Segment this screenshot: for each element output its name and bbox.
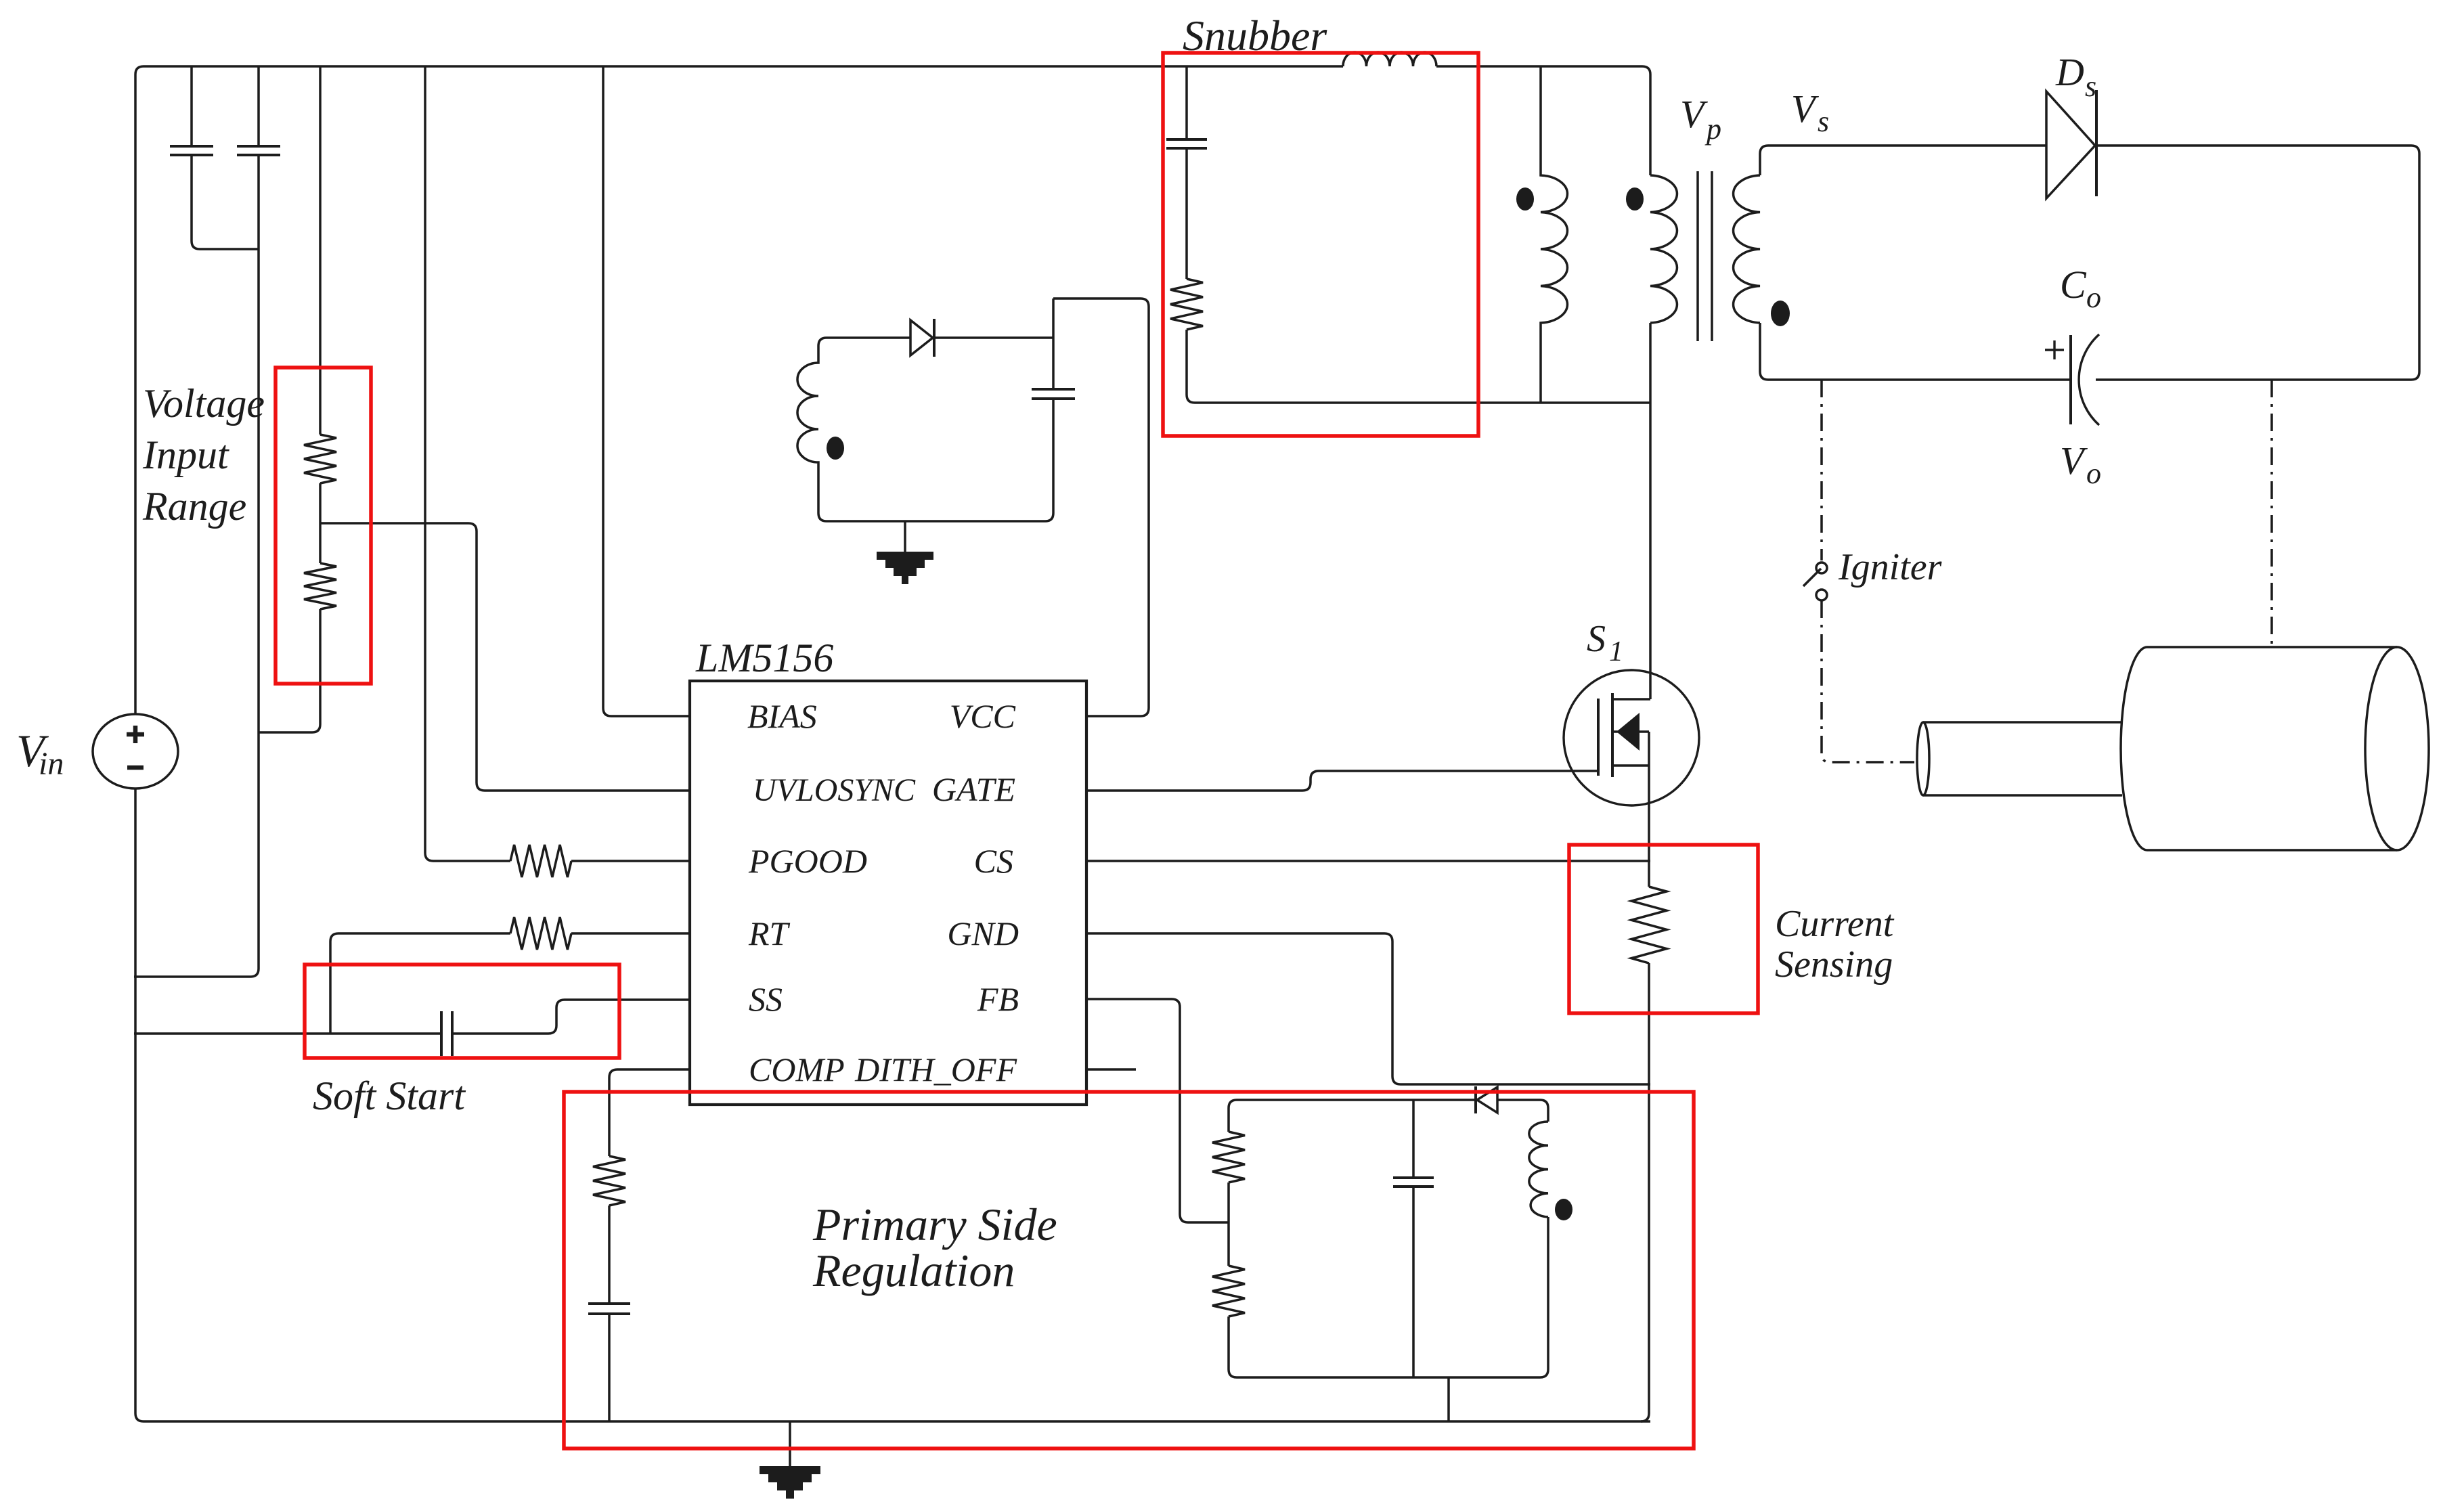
capacitor C-ss plates	[441, 1011, 452, 1056]
wire output bottom rail right	[2096, 378, 2411, 381]
lamp bulb bottom	[2147, 849, 2397, 851]
transistor S1 channel bar	[1611, 693, 1614, 777]
svg-text:Voltage: Voltage	[143, 381, 265, 426]
wire UVLOSYNC from divider tap	[320, 523, 690, 791]
wire snubber cap to resistor	[1185, 148, 1188, 279]
wire SS cap to IC	[452, 1000, 690, 1034]
wire aux diode to node	[934, 336, 1053, 339]
wire igniter dash-dot lower	[1822, 600, 1914, 762]
capacitor C-psr plates	[1393, 1178, 1434, 1187]
wire snubber tap	[1185, 66, 1188, 139]
svg-text:UVLOSYNC: UVLOSYNC	[753, 772, 916, 808]
svg-text:p: p	[1704, 112, 1721, 146]
svg-text:o: o	[2086, 457, 2101, 490]
svg-text:Regulation: Regulation	[812, 1245, 1015, 1296]
capacitor C-in2 plates	[237, 146, 280, 155]
resistor R-pgood	[510, 845, 571, 877]
transistor S1 source leg	[1612, 764, 1649, 767]
svg-text:GATE: GATE	[932, 770, 1015, 808]
inductor L-aux winding	[797, 338, 827, 521]
diode D-psr triangle	[1477, 1087, 1497, 1113]
ground symbol aux	[877, 552, 933, 584]
label Vin minus	[127, 766, 144, 770]
svg-text:Input: Input	[142, 433, 229, 477]
capacitor C-in2 top lead	[257, 66, 260, 146]
dot secondary winding polarity	[1771, 301, 1790, 326]
transistor S1 gate bar	[1597, 699, 1600, 776]
lamp electrode tube end cap	[1917, 722, 1929, 795]
capacitor Co straight plate	[2069, 335, 2072, 424]
dot magnetizing winding polarity	[1516, 187, 1534, 211]
box current sensing	[1569, 845, 1758, 1013]
svg-text:Igniter: Igniter	[1838, 546, 1942, 588]
transistor S1 middle leg	[1612, 730, 1649, 733]
svg-text:1: 1	[1609, 636, 1623, 667]
resistor R-snubber	[1170, 279, 1203, 330]
svg-text:CS: CS	[974, 842, 1013, 880]
svg-text:V: V	[2060, 439, 2088, 483]
svg-text:D: D	[2055, 50, 2084, 94]
box soft start	[305, 965, 619, 1058]
capacitor C-aux plates	[1032, 389, 1075, 399]
wire primary to drain	[1649, 323, 1652, 699]
svg-text:FB: FB	[977, 980, 1019, 1018]
lamp bulb right end ellipse	[2365, 647, 2429, 850]
wire RT corner vertical	[330, 933, 510, 1034]
svg-text:Primary Side: Primary Side	[812, 1199, 1057, 1250]
diode D-psr cathode bar	[1474, 1086, 1477, 1113]
resistor R-comp	[593, 1156, 625, 1206]
wire output bottom rail left	[1760, 323, 2071, 380]
dot primary winding polarity	[1626, 187, 1644, 211]
wire left rail upper	[135, 66, 144, 714]
transformer primary winding	[1650, 175, 1677, 323]
wire PSR network left vertical top	[1229, 1100, 1237, 1132]
wire COMP cap to ground rail	[608, 1314, 611, 1421]
lamp bulb top	[2147, 646, 2397, 648]
IC U1 LM5156 box	[690, 681, 1086, 1105]
switch igniter contact top	[1816, 562, 1827, 573]
resistor R-fb-top	[1212, 1132, 1245, 1182]
svg-text:s: s	[1818, 105, 1829, 138]
wire aux winding to diode	[827, 336, 910, 339]
wire secondary top Vs rail	[1760, 146, 2046, 175]
capacitor Co curved plate	[2079, 334, 2099, 425]
source Vin	[93, 714, 178, 789]
transformer secondary winding	[1734, 175, 1760, 323]
wire sense resistor to ground rail	[1641, 963, 1649, 1421]
resistor R-uvlo-top	[304, 435, 336, 483]
REDBOX-SECTION	[276, 53, 1758, 1448]
wire PSR divider middle	[1227, 1182, 1230, 1266]
wire CS to sense node	[1086, 860, 1650, 862]
wire aux cap to bottom rail	[827, 399, 1053, 521]
switch igniter contact bottom	[1816, 590, 1827, 600]
label Vin plus	[127, 726, 144, 743]
wire PSR cap branch bottom	[1412, 1187, 1415, 1377]
wire RT to IC	[571, 932, 690, 935]
wire divider bottom to return	[259, 609, 320, 732]
capacitor C-in1 plates	[170, 146, 213, 155]
wire PSR divider bottom	[1229, 1317, 1237, 1377]
transistor S1 body circle	[1564, 670, 1699, 805]
wire GND kelvin return	[1086, 933, 1650, 1084]
wire VCC to aux supply	[1053, 298, 1149, 716]
wire primary ground rail	[144, 1420, 1650, 1423]
wire source to sense resistor	[1648, 732, 1650, 887]
wire PGOOD to IC	[571, 860, 690, 862]
inductor L-psr winding	[1529, 1122, 1548, 1217]
svg-text:V: V	[1680, 92, 1709, 136]
box voltage input range divider	[276, 368, 371, 684]
svg-text:C: C	[2060, 263, 2087, 307]
wire igniter dash-dot upper	[1820, 380, 1823, 560]
capacitor C-in1 top lead	[190, 66, 193, 146]
svg-text:Current: Current	[1775, 903, 1895, 945]
capacitor C-in1 bottom lead	[192, 155, 259, 249]
resistor R-rt	[510, 917, 571, 950]
box primary side regulation	[564, 1092, 1694, 1448]
wire BIAS feed vertical	[603, 66, 690, 716]
svg-text:DITH_OFF: DITH_OFF	[854, 1050, 1017, 1088]
wire divider top lead	[319, 66, 322, 435]
wire PSR cap branch top	[1412, 1100, 1415, 1178]
svg-text:s: s	[2085, 70, 2096, 103]
wire COMP resistor to cap	[608, 1206, 611, 1304]
wire aux node vertical	[1052, 298, 1055, 389]
svg-text:BIAS: BIAS	[747, 697, 817, 735]
resistor R-uvlo-bottom	[304, 563, 336, 609]
wire COMP from IC	[609, 1069, 690, 1156]
transformer magnetizing winding	[1541, 66, 1567, 403]
svg-text:Sensing: Sensing	[1775, 944, 1893, 986]
wire PSR top rail	[1237, 1099, 1476, 1101]
svg-text:Soft Start: Soft Start	[313, 1074, 466, 1118]
wire snubber bottom rail	[1187, 330, 1650, 403]
wire PSR top rail right	[1497, 1100, 1548, 1122]
lamp electrode tube top	[1923, 721, 2122, 724]
dot PSR winding polarity	[1555, 1199, 1572, 1220]
svg-text:o: o	[2086, 281, 2101, 314]
wire FB from IC to divider	[1086, 999, 1229, 1222]
svg-text:GND: GND	[947, 914, 1019, 952]
resistor R-sense	[1631, 887, 1667, 963]
label Co plus	[2045, 340, 2064, 359]
transistor S1 body arrow	[1616, 713, 1640, 751]
svg-text:Range: Range	[142, 484, 246, 529]
svg-text:VCC: VCC	[950, 697, 1016, 735]
box snubber	[1163, 53, 1478, 436]
capacitor C-comp plates	[588, 1304, 630, 1314]
wire top rail Vin+	[144, 65, 1343, 68]
lamp electrode tube bottom	[1923, 794, 2122, 797]
wire left rail lower	[135, 789, 144, 1421]
wire PGOOD pull-up vertical	[425, 66, 510, 861]
wire PSR right vertical	[1540, 1217, 1548, 1377]
wire aux ground stub	[904, 521, 906, 552]
wire GATE to S1	[1086, 771, 1598, 791]
svg-text:V: V	[1791, 87, 1820, 131]
transistor S1 drain leg	[1612, 698, 1650, 701]
wire SS ground run	[134, 1032, 441, 1035]
resistor R-fb-bottom	[1212, 1266, 1245, 1317]
switch igniter lever	[1803, 569, 1821, 586]
svg-text:S: S	[1587, 618, 1606, 660]
wire Ds cathode to output corner	[2096, 146, 2419, 380]
ground symbol primary	[789, 1421, 791, 1466]
wire top rail to transformer	[1436, 66, 1650, 175]
dot aux winding polarity	[827, 437, 844, 460]
wire Vin- return vertical	[134, 155, 259, 977]
capacitor C-snubber plates	[1166, 139, 1207, 148]
svg-text:LM5156: LM5156	[695, 636, 833, 680]
svg-text:PGOOD: PGOOD	[748, 842, 867, 880]
svg-text:SS: SS	[749, 980, 783, 1018]
inductor L-snubber (series input inductor)	[1343, 52, 1436, 66]
svg-text:in: in	[39, 746, 64, 782]
transformer core	[1698, 171, 1712, 341]
wire divider middle	[319, 483, 322, 563]
diode Ds	[2046, 91, 2095, 198]
wire DITH_OFF stub	[1086, 1068, 1136, 1071]
diode D-aux	[910, 320, 933, 355]
svg-text:COMP: COMP	[749, 1050, 845, 1088]
svg-text:RT: RT	[748, 914, 791, 952]
wire PSR bottom rail	[1237, 1376, 1540, 1379]
lamp bulb left cap arc	[2121, 647, 2147, 850]
wire lamp dash-dot right	[2270, 380, 2273, 647]
wire PSR ground stub	[1447, 1377, 1450, 1421]
TEXT-SECTION	[16, 12, 2101, 1296]
